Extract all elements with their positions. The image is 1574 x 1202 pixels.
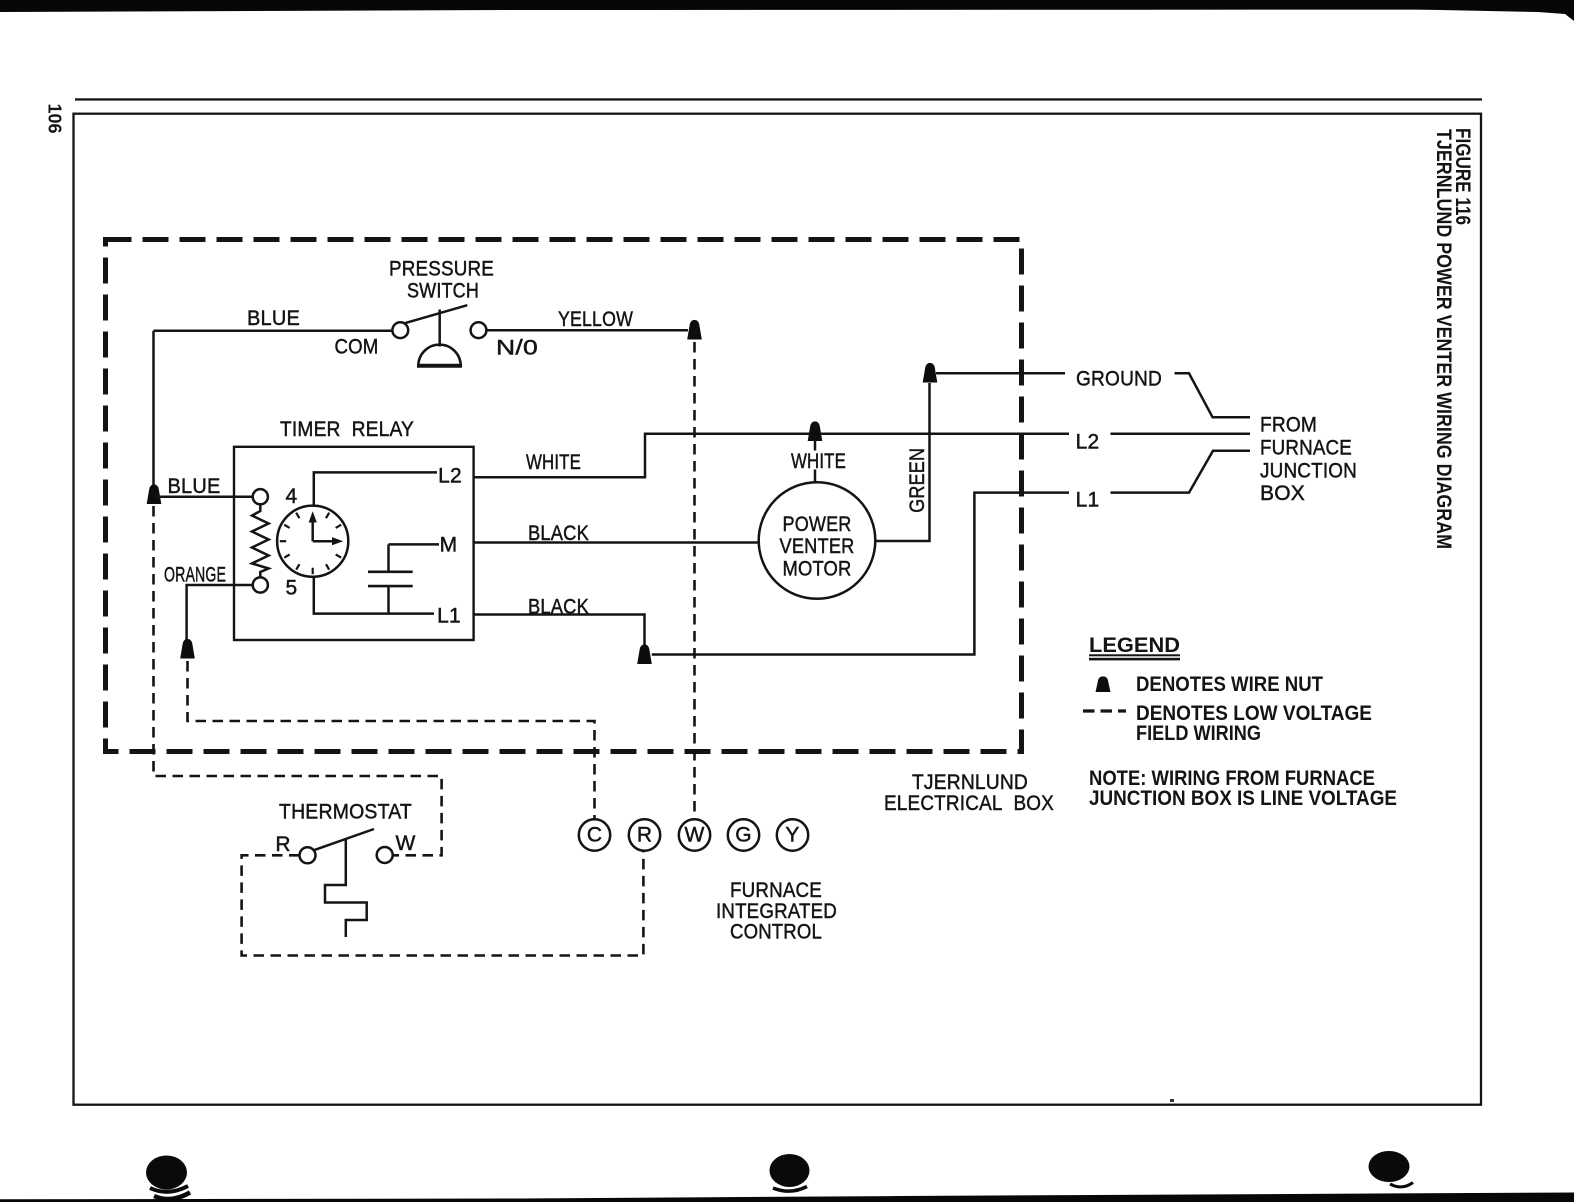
svg-text:FURNACE: FURNACE — [1260, 437, 1352, 460]
stray dot — [1170, 1099, 1174, 1102]
wire white L2 to furnace L2 — [474, 434, 1069, 478]
clock minute hand — [311, 522, 314, 542]
timer relay box — [234, 447, 474, 640]
wire black L1 out of timer — [474, 615, 645, 646]
binder hole 2 — [770, 1154, 810, 1187]
capacitor bottom lead — [387, 586, 390, 614]
svg-text:4: 4 — [286, 485, 298, 508]
pressure switch dome — [418, 345, 460, 366]
clock hour hand — [313, 540, 333, 543]
svg-text:L1: L1 — [1076, 489, 1100, 512]
furnace terminal R — [629, 819, 660, 850]
furnace terminal G — [728, 819, 759, 850]
svg-text:GREEN: GREEN — [906, 448, 929, 513]
svg-text:G: G — [735, 823, 752, 846]
svg-text:BLACK: BLACK — [528, 522, 589, 545]
wire nut yellow — [687, 320, 702, 340]
furnace terminal W — [679, 819, 710, 850]
svg-text:THERMOSTAT: THERMOSTAT — [279, 801, 412, 824]
svg-text:POWER: POWER — [783, 513, 852, 536]
wire yellow N/O to nut — [486, 329, 688, 332]
wire nut blue — [147, 484, 162, 504]
timer inner node line bottom — [314, 577, 434, 614]
furnace terminal Y — [777, 819, 808, 850]
svg-text:TJERNLUND POWER VENTER WIRING: TJERNLUND POWER VENTER WIRING DIAGRAM — [1432, 129, 1455, 549]
wire white right of L2 label — [1111, 433, 1251, 436]
svg-text:TIMER RELAY: TIMER RELAY — [280, 418, 414, 441]
wire nut black L1 — [637, 644, 652, 664]
legend wire nut icon — [1096, 676, 1111, 692]
motor text — [780, 513, 855, 581]
thermostat anticipator staircase — [325, 839, 367, 938]
svg-text:VENTER: VENTER — [780, 535, 855, 558]
page top rule — [75, 98, 1482, 100]
svg-text:L1: L1 — [437, 605, 461, 628]
svg-text:N/0: N/0 — [496, 337, 538, 360]
svg-text:WHITE: WHITE — [791, 450, 846, 473]
clock ticks — [280, 513, 341, 574]
svg-text:TJERNLUND: TJERNLUND — [912, 771, 1028, 794]
svg-text:COM: COM — [335, 336, 379, 359]
binder hole 1 — [146, 1156, 187, 1190]
furnace terminal C — [579, 819, 610, 850]
svg-text:FURNACE: FURNACE — [730, 879, 822, 902]
svg-text:C: C — [587, 823, 602, 846]
white stub to motor — [814, 441, 817, 483]
dashed orange low voltage wire to C — [188, 661, 595, 819]
svg-text:Y: Y — [785, 823, 799, 846]
binder hole 3 — [1369, 1151, 1410, 1182]
label FROM FURNACE JUNCTION BOX — [1260, 414, 1357, 506]
wire black L1 to furnace L1 — [652, 493, 1069, 655]
svg-text:W: W — [684, 823, 704, 846]
wire nut white — [808, 421, 823, 441]
svg-text:R: R — [275, 833, 290, 856]
timer inner node line top — [314, 472, 437, 505]
svg-text:R: R — [637, 823, 652, 846]
wire green from motor — [875, 383, 929, 541]
dashed blue low voltage wire to thermostat W — [154, 506, 442, 855]
svg-text:L2: L2 — [1076, 431, 1100, 454]
ground bracket line — [1175, 373, 1251, 417]
svg-text:106: 106 — [45, 104, 65, 134]
svg-text:PRESSURE: PRESSURE — [389, 258, 494, 281]
scanner top-right corner mark — [1390, 0, 1574, 21]
thermostat W terminal — [377, 847, 393, 863]
svg-text:FROM: FROM — [1260, 414, 1317, 437]
svg-text:SWITCH: SWITCH — [407, 280, 479, 303]
terminal 5 — [253, 577, 268, 592]
svg-text:ORANGE: ORANGE — [164, 564, 226, 587]
capacitor top lead — [387, 544, 390, 571]
svg-text:GROUND: GROUND — [1076, 368, 1162, 391]
timer clock face — [277, 506, 348, 577]
svg-text:WHITE: WHITE — [526, 451, 581, 474]
svg-text:W: W — [395, 832, 415, 855]
pressure switch dome base — [417, 364, 462, 368]
pressure switch arm — [404, 305, 467, 323]
wire black M to motor — [474, 541, 759, 544]
wire L1 right of label — [1111, 451, 1251, 493]
svg-text:MOTOR: MOTOR — [783, 558, 852, 581]
dashed yellow low voltage wire — [693, 342, 696, 819]
pressure switch N/O terminal — [471, 322, 487, 338]
svg-text:FIELD WIRING: FIELD WIRING — [1136, 722, 1261, 745]
svg-text:BLUE: BLUE — [247, 307, 300, 330]
resistor between 4 and 5 — [252, 504, 269, 577]
label FURNACE INTEGRATED CONTROL — [716, 879, 837, 944]
terminal 4 — [253, 489, 268, 504]
svg-text:ELECTRICAL BOX: ELECTRICAL BOX — [884, 792, 1054, 815]
svg-text:YELLOW: YELLOW — [558, 308, 633, 331]
legend underline — [1089, 654, 1180, 656]
thermostat R terminal — [300, 847, 316, 863]
thermostat arm — [314, 829, 374, 850]
wire blue nut to terminal 4 — [155, 495, 253, 498]
svg-text:BOX: BOX — [1260, 482, 1305, 505]
page border frame — [74, 114, 1482, 1105]
svg-text:CONTROL: CONTROL — [730, 921, 822, 944]
capacitor plates — [368, 572, 413, 586]
svg-text:DENOTES WIRE NUT: DENOTES WIRE NUT — [1136, 673, 1323, 696]
scanner top bar — [0, 0, 1574, 12]
wire nut orange — [180, 639, 195, 659]
wire blue vertical — [152, 331, 155, 485]
wire ground — [936, 372, 1065, 375]
svg-text:JUNCTION BOX IS LINE VOLTAGE: JUNCTION BOX IS LINE VOLTAGE — [1089, 787, 1397, 810]
svg-text:BLACK: BLACK — [528, 596, 589, 619]
pressure switch label — [389, 258, 494, 303]
pressure switch pivot — [438, 310, 441, 347]
svg-text:JUNCTION: JUNCTION — [1260, 460, 1357, 483]
svg-text:LEGEND: LEGEND — [1089, 634, 1180, 657]
wire M inside timer — [389, 543, 440, 546]
wire orange from terminal 5 — [187, 585, 253, 640]
pressure switch COM terminal — [392, 322, 408, 338]
svg-text:M: M — [440, 534, 458, 557]
dashed thermostat R loop to furnace R — [242, 851, 644, 956]
electrical box (dashed) — [106, 240, 1022, 752]
scanner bottom bar — [0, 1193, 1574, 1202]
svg-text:5: 5 — [286, 577, 298, 600]
svg-text:BLUE: BLUE — [168, 475, 221, 498]
label TJERNLUND ELECTRICAL BOX — [884, 771, 1054, 815]
svg-text:L2: L2 — [438, 465, 462, 488]
wire nut green — [923, 363, 938, 383]
power venter motor — [759, 482, 876, 599]
legend dashed sample — [1083, 709, 1126, 712]
wire blue horizontal to COM — [154, 330, 393, 333]
